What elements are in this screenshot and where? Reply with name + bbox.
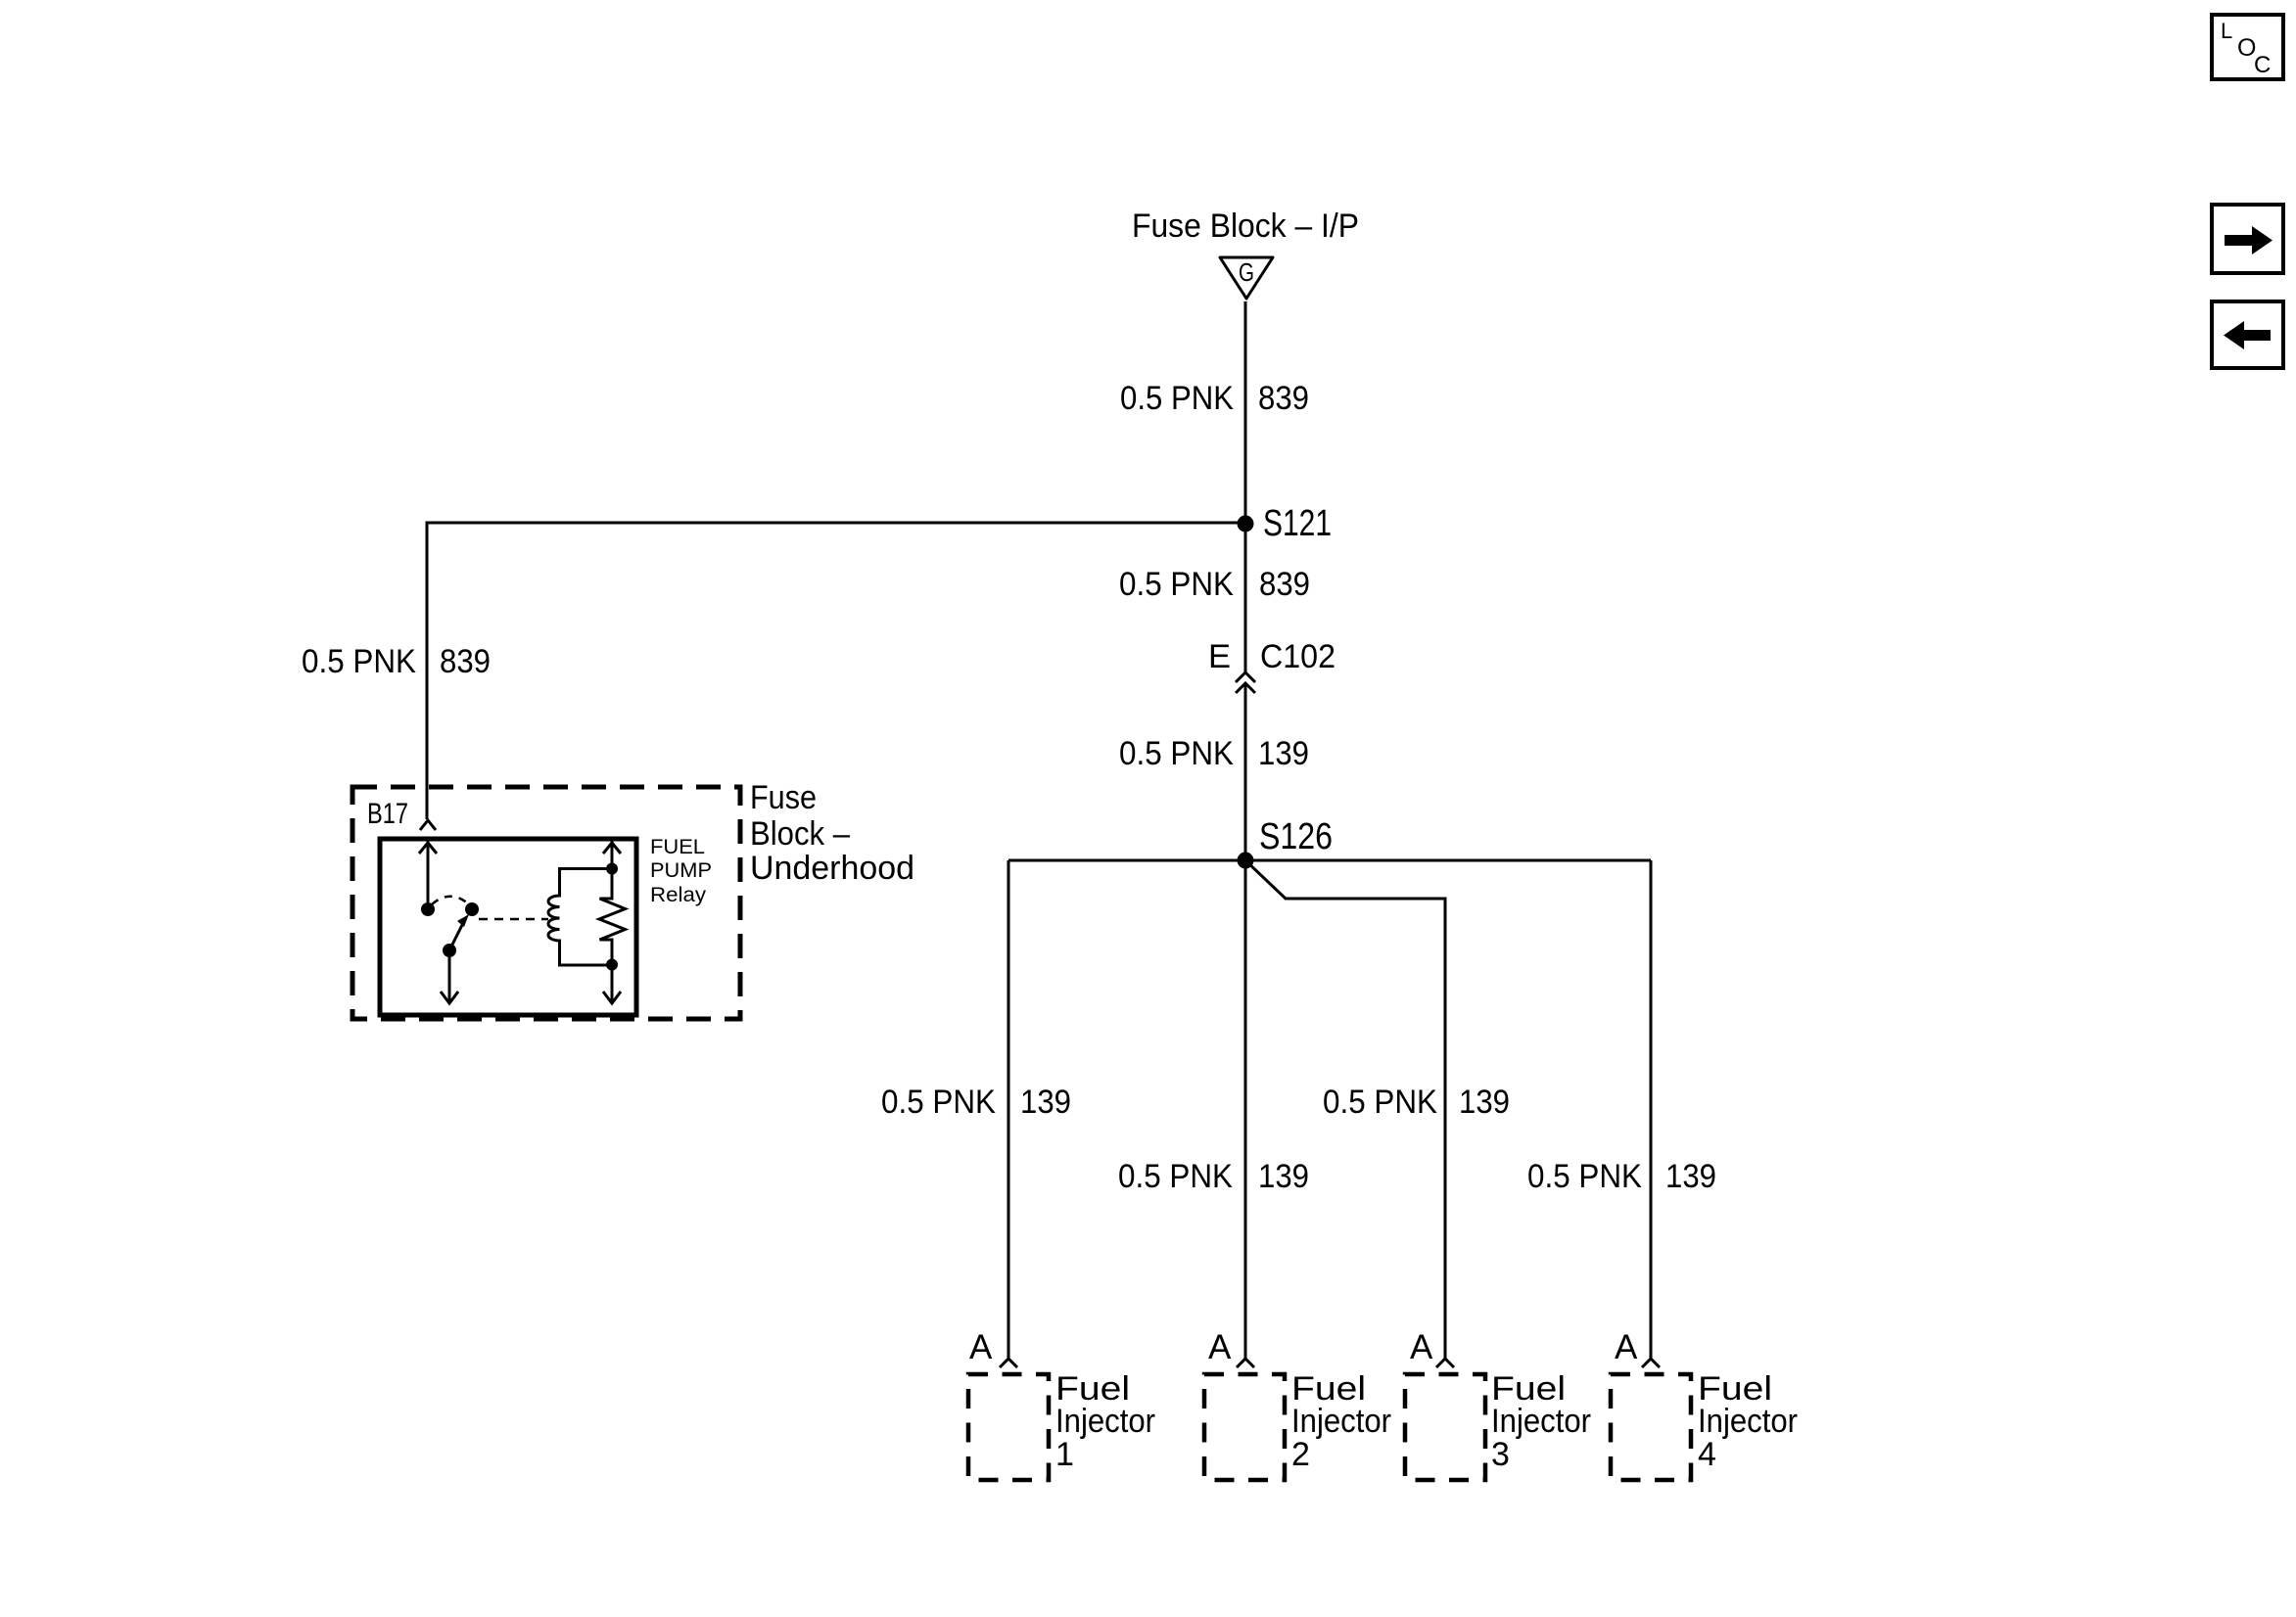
svg-text:Injector: Injector	[1491, 1403, 1591, 1440]
wire S126 horizontal bus to injector 1 and injector 4	[1008, 859, 1651, 862]
svg-text:4: 4	[1698, 1436, 1716, 1473]
LOC legend box	[2212, 15, 2283, 79]
svg-text:C102: C102	[1260, 638, 1335, 675]
relay switch fixed contact dot	[421, 902, 435, 916]
svg-text:0.5 PNK: 0.5 PNK	[1323, 1084, 1437, 1121]
svg-text:Underhood: Underhood	[750, 850, 914, 887]
svg-text:839: 839	[1258, 380, 1309, 417]
wire to fuel injector 1	[1007, 860, 1010, 1360]
relay pin 85 terminal arrow (right top)	[603, 841, 621, 868]
svg-text:B17: B17	[367, 798, 408, 830]
relay coil bottom node dot	[606, 959, 618, 971]
label FUEL PUMP Relay	[650, 836, 712, 906]
relay resistor	[599, 869, 626, 965]
fuel pump relay box	[380, 839, 636, 1015]
splice S121	[1238, 516, 1254, 532]
relay coil	[548, 870, 560, 965]
relay coil bottom wire	[558, 964, 612, 967]
relay coil control dashed link	[479, 918, 548, 921]
svg-text:C: C	[2254, 52, 2271, 78]
label Fuel Injector 2	[1291, 1370, 1391, 1473]
relay switch contact dot (movable end)	[465, 902, 479, 916]
fuel injector 1 dashed box	[968, 1374, 1049, 1480]
relay pin 86 line with down arrow (right bottom)	[603, 965, 621, 1003]
wire 0.5 PNK 839 from S121 down to C102	[1244, 524, 1247, 672]
relay switch arm with arrowhead	[449, 914, 469, 950]
relay switch throw dashed arc	[432, 897, 468, 904]
label Fuel Injector 3	[1491, 1370, 1591, 1473]
label Fuel Injector 4	[1698, 1370, 1798, 1473]
fuel injector 2 dashed box	[1204, 1374, 1285, 1480]
wire end chevron at injector 1	[1000, 1359, 1017, 1367]
forward (next page) arrow box	[2212, 205, 2283, 273]
svg-text:0.5 PNK: 0.5 PNK	[1527, 1158, 1642, 1195]
svg-text:S126: S126	[1259, 816, 1333, 857]
relay switch pivot dot	[443, 944, 456, 957]
svg-text:0.5 PNK: 0.5 PNK	[1119, 735, 1234, 772]
relay coil top node dot	[606, 863, 618, 875]
wire from S121 left toward fuse block underhood	[427, 523, 1245, 819]
wire to fuel injector 2	[1244, 860, 1247, 1360]
svg-text:0.5 PNK: 0.5 PNK	[1120, 380, 1234, 417]
svg-text:839: 839	[440, 643, 491, 680]
relay coil top wire	[558, 867, 612, 870]
svg-text:Fuse Block – I/P: Fuse Block – I/P	[1132, 208, 1359, 245]
svg-text:Injector: Injector	[1055, 1403, 1155, 1440]
wire end chevron at injector 4	[1642, 1359, 1660, 1367]
relay pin 87 line with down arrow (left bottom)	[441, 950, 458, 1003]
svg-text:Injector: Injector	[1698, 1403, 1798, 1440]
svg-text:1: 1	[1055, 1436, 1074, 1473]
fuel injector 3 dashed box	[1405, 1374, 1485, 1480]
svg-text:3: 3	[1491, 1436, 1510, 1473]
svg-text:E: E	[1208, 638, 1231, 675]
wire end chevron at injector 2	[1237, 1359, 1254, 1367]
svg-text:A: A	[1208, 1328, 1232, 1366]
wire to fuel injector 3 (dogleg)	[1245, 860, 1445, 1360]
svg-text:Fuse: Fuse	[750, 779, 817, 816]
svg-text:PUMP: PUMP	[650, 859, 712, 882]
svg-text:Relay: Relay	[650, 884, 707, 906]
svg-text:S121: S121	[1263, 503, 1332, 544]
svg-text:A: A	[969, 1328, 993, 1366]
svg-text:A: A	[1615, 1328, 1638, 1366]
svg-text:FUEL: FUEL	[650, 836, 705, 858]
inline connector C102 double chevron	[1236, 672, 1255, 693]
svg-text:G: G	[1239, 257, 1254, 287]
wire end chevron at injector 3	[1436, 1359, 1454, 1367]
relay pin 30 terminal arrow (left top)	[419, 841, 437, 902]
svg-text:139: 139	[1258, 1158, 1309, 1195]
connector G triangle (Fuse Block I/P)	[1220, 257, 1273, 299]
svg-text:139: 139	[1459, 1084, 1510, 1121]
label Fuse Block - Underhood	[750, 779, 914, 887]
svg-text:139: 139	[1665, 1158, 1716, 1195]
svg-text:Injector: Injector	[1291, 1403, 1391, 1440]
svg-text:Block –: Block –	[750, 815, 850, 853]
fuse block underhood dashed box	[352, 787, 740, 1019]
svg-text:0.5 PNK: 0.5 PNK	[302, 643, 416, 680]
wire to fuel injector 4	[1650, 860, 1653, 1360]
label Fuel Injector 1	[1055, 1370, 1155, 1473]
svg-text:L: L	[2221, 19, 2232, 43]
svg-text:2: 2	[1291, 1436, 1310, 1473]
wire 0.5 PNK 839 from fuse block G to splice S121	[1244, 301, 1247, 524]
svg-text:A: A	[1410, 1328, 1433, 1366]
wire 0.5 PNK 139 from C102 down to splice S126	[1244, 684, 1247, 860]
back (previous page) arrow box	[2212, 301, 2283, 368]
svg-text:839: 839	[1259, 566, 1310, 603]
svg-text:0.5 PNK: 0.5 PNK	[1118, 1158, 1233, 1195]
pin B17 entry chevron	[420, 820, 436, 830]
splice S126	[1238, 853, 1254, 869]
svg-text:0.5 PNK: 0.5 PNK	[881, 1084, 996, 1121]
svg-text:0.5 PNK: 0.5 PNK	[1119, 566, 1234, 603]
fuel injector 4 dashed box	[1611, 1374, 1691, 1480]
svg-text:139: 139	[1258, 735, 1309, 772]
svg-text:139: 139	[1020, 1084, 1071, 1121]
